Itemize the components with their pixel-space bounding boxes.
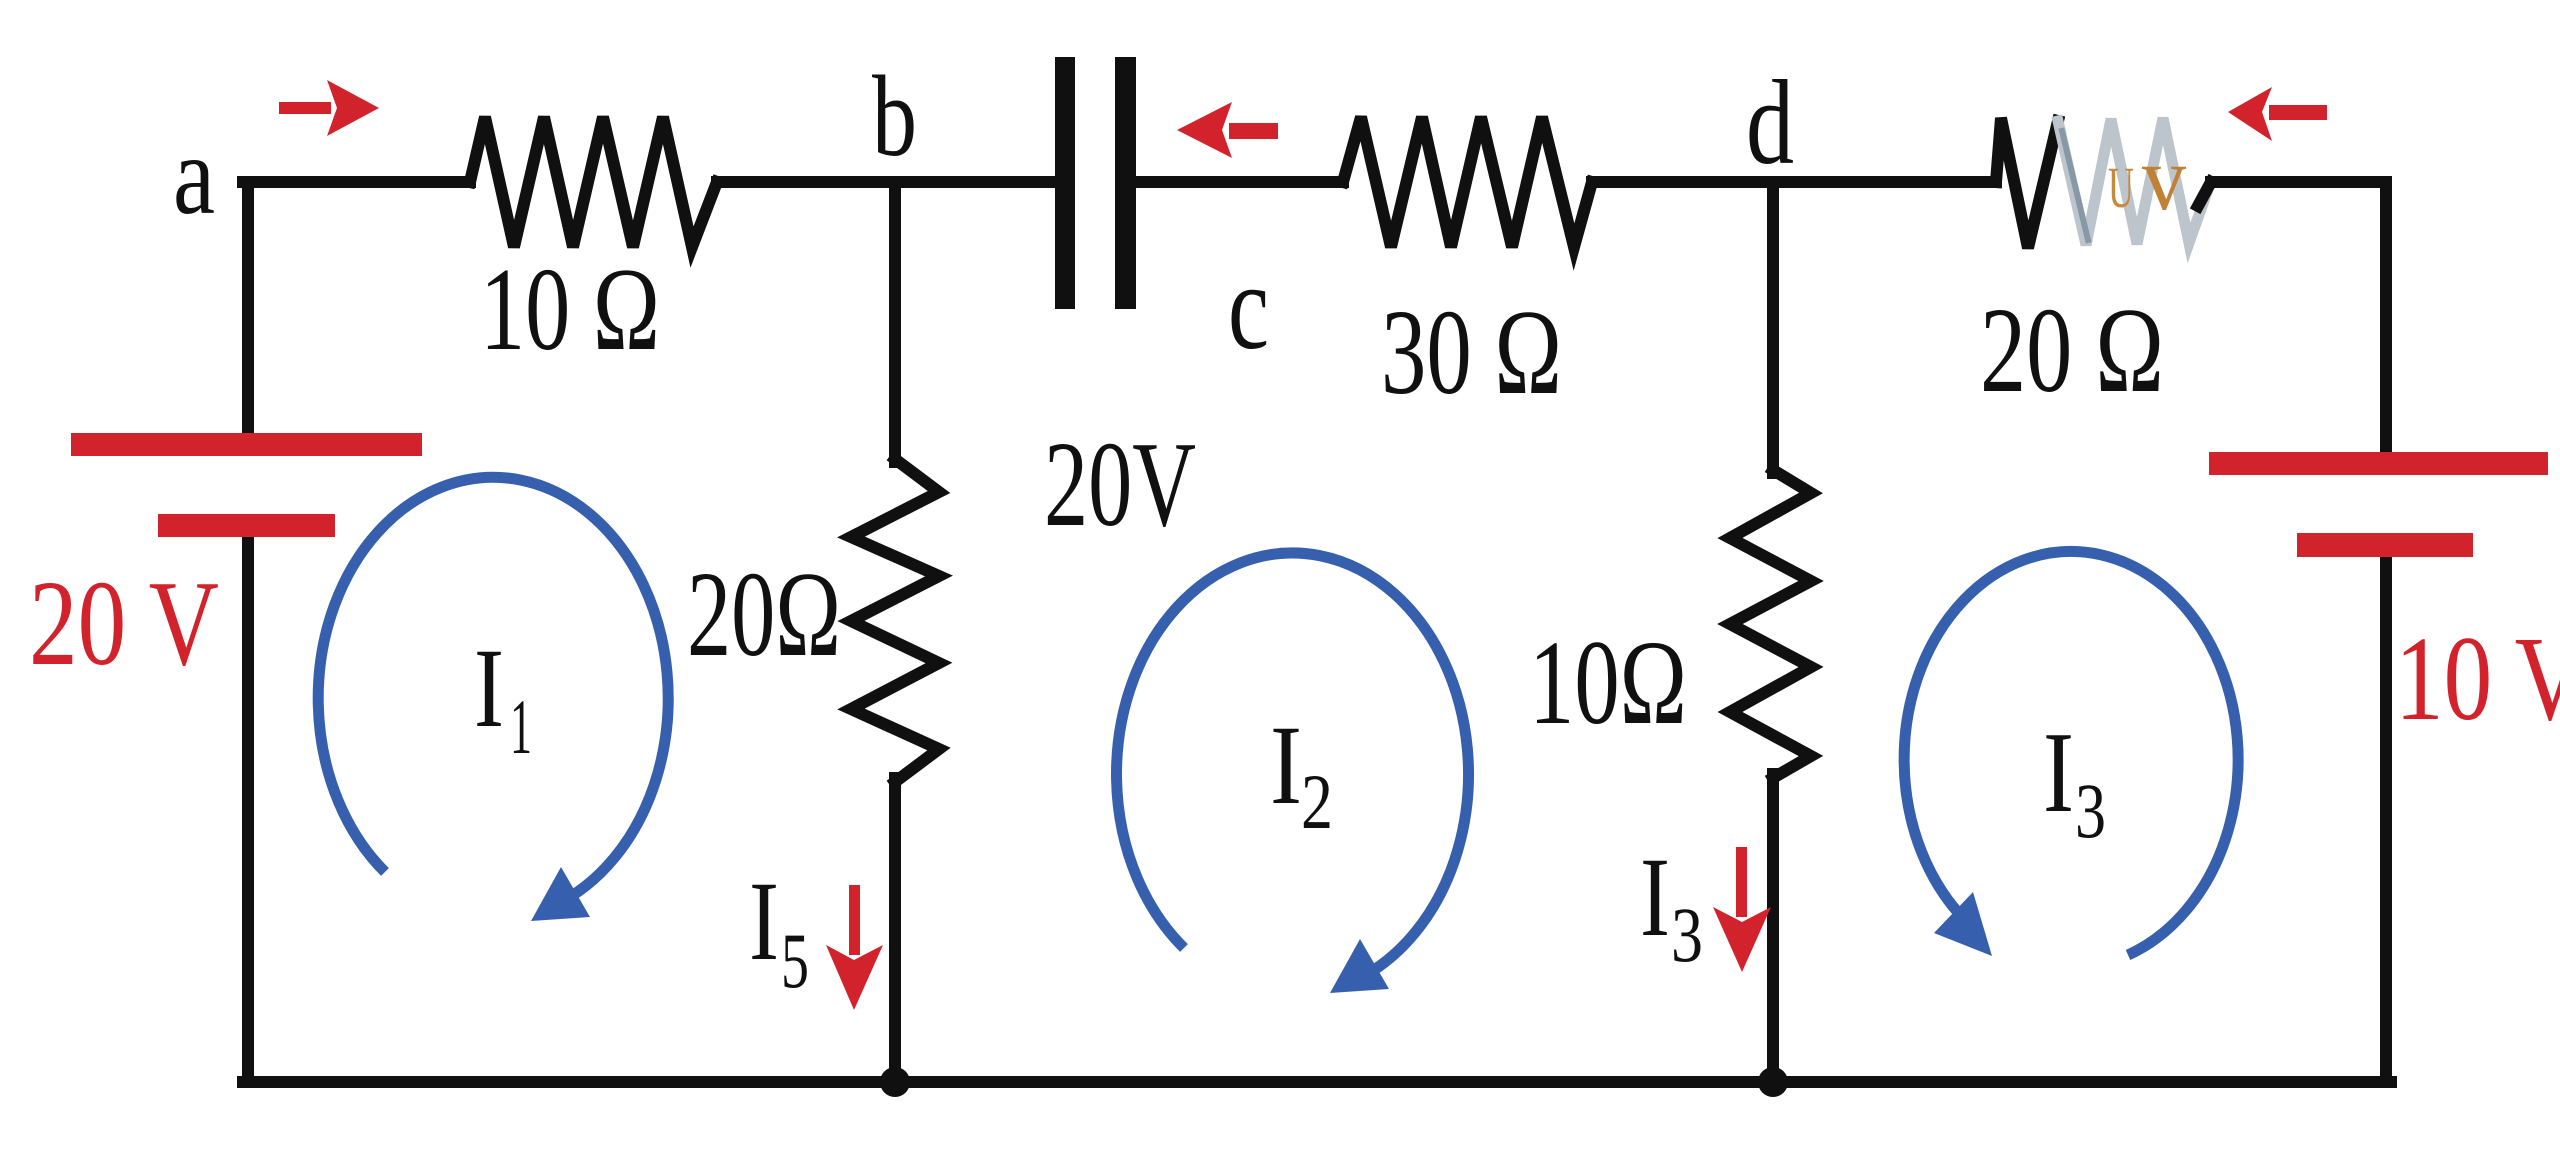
- svg-text:20Ω: 20Ω: [687, 547, 841, 682]
- current arrow left (at capacitor): [1229, 123, 1278, 139]
- svg-text:10Ω: 10Ω: [1529, 616, 1687, 750]
- junction node at bottom of Rb: [880, 1067, 910, 1097]
- svg-text:2: 2: [1301, 758, 1333, 845]
- svg-text:I: I: [1640, 835, 1670, 960]
- svg-text:d: d: [1746, 56, 1794, 190]
- current arrow right (top left, into R1): [279, 102, 331, 114]
- wire Rb to bottom junction: [889, 778, 901, 1082]
- current arrow left (top right): [2269, 105, 2327, 120]
- junction node at bottom of Rd: [1758, 1067, 1788, 1097]
- svg-text:3: 3: [2075, 767, 2106, 854]
- svg-text:I: I: [474, 626, 504, 751]
- svg-text:I: I: [749, 859, 779, 984]
- svg-text:20V: 20V: [1044, 417, 1196, 552]
- wire battery B2 to bottom right corner: [2380, 557, 2392, 1082]
- svg-text:5: 5: [781, 917, 809, 1004]
- wire R1 to capacitor C1: [717, 176, 1055, 188]
- resistor Rd 10 ohm (right middle vertical): [1730, 470, 1811, 778]
- wire node b down to Rb: [889, 182, 901, 462]
- wire right vertical (corner to battery B2): [2380, 182, 2392, 452]
- mesh current loop I1: [318, 477, 668, 906]
- svg-text:v: v: [2142, 127, 2186, 229]
- svg-text:b: b: [872, 53, 917, 180]
- svg-text:I: I: [1270, 703, 1302, 828]
- svg-text:20 V: 20 V: [29, 556, 219, 691]
- svg-text:20 Ω: 20 Ω: [1980, 283, 2164, 418]
- current arrow I5 down: [849, 885, 860, 955]
- wire Rd to bottom junction: [1767, 774, 1779, 1082]
- mesh current loop I2: [1117, 553, 1469, 982]
- battery B2 long plate (positive): [2209, 452, 2548, 475]
- battery B2 short plate (negative): [2297, 533, 2473, 557]
- current arrow I3 down (at Rd): [1736, 847, 1747, 917]
- wire R3 to top right corner: [2211, 176, 2386, 188]
- resistor Rb 20 ohm (middle vertical): [851, 459, 939, 782]
- resistor R3 ghost end black segment: [2198, 182, 2211, 206]
- wire top: a to R1: [243, 176, 470, 188]
- svg-text:10 V: 10 V: [2395, 612, 2560, 746]
- wire node d down to Rd: [1767, 182, 1779, 473]
- svg-text:a: a: [173, 114, 215, 238]
- battery B1 short plate (negative): [158, 514, 335, 537]
- battery B1 long plate (positive): [71, 433, 422, 456]
- wire bottom rail: [243, 1076, 2391, 1088]
- mesh current loop I3: [1904, 551, 2238, 955]
- resistor R3 20 ohm (ghosted/faded) black part: [1996, 118, 2058, 248]
- wire R2 to node d: [1592, 176, 1996, 188]
- capacitor C1 plates: [1055, 57, 1075, 309]
- resistor R2 30 ohm: [1343, 117, 1592, 247]
- resistor R3 ghost gray zigzag: [2058, 118, 2206, 245]
- svg-text:1: 1: [510, 683, 532, 770]
- svg-text:U: U: [2108, 155, 2134, 220]
- svg-text:10 Ω: 10 Ω: [480, 243, 660, 375]
- wire left vertical (a to battery B1): [242, 182, 254, 433]
- svg-text:I: I: [2043, 709, 2074, 836]
- wire C1 to R2: [1136, 176, 1343, 188]
- wire battery B1 to bottom left corner: [242, 537, 254, 1082]
- svg-text:c: c: [1228, 238, 1269, 375]
- svg-text:30 Ω: 30 Ω: [1381, 285, 1562, 420]
- resistor R1 10 ohm (top left): [470, 117, 717, 247]
- svg-text:3: 3: [1671, 891, 1703, 978]
